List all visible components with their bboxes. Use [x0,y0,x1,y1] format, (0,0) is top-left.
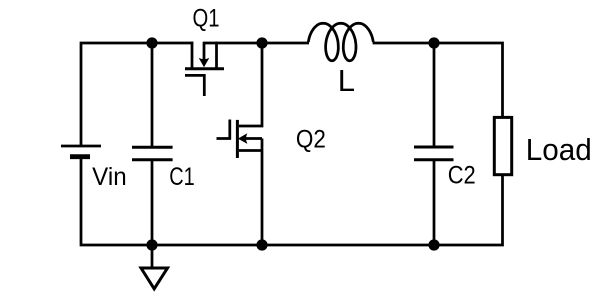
wire Q1 arrow shaft [203,42,206,61]
ground [141,268,168,289]
svg-text:Load: Load [526,132,592,167]
wire top-left rail and left branch down to battery [81,43,193,146]
svg-text:Q1: Q1 [193,5,220,33]
wire C1 branch top [151,43,154,147]
transistor Q2 [217,120,248,159]
wire Q1 source terminal drop [191,42,194,69]
wire Q2 body arrow shaft [246,137,262,140]
wire top rail right segment with corner to load [204,43,503,117]
svg-text:C1: C1 [169,163,195,191]
wire Q2 source to bottom rail [239,139,262,246]
inductor L [308,23,373,61]
node dot switch node [256,37,267,48]
wire Q1 drain terminal drop [215,42,218,69]
svg-text:Vin: Vin [92,163,127,191]
svg-text:L: L [338,63,355,98]
wire ground stub [151,245,154,268]
wire C2 branch bottom [433,160,436,245]
node dot bottom C1 [146,239,157,250]
node dot bottom Q2 [256,239,267,250]
node dot top C2 [428,37,439,48]
capacitor C1 [132,147,173,160]
transistor Q1 [185,58,224,96]
wire node-to-Q2 drain [239,43,262,126]
capacitor C2 [414,147,454,160]
resistor Load [494,117,511,174]
node dot bottom C2 [428,239,439,250]
node dot top C1 [146,37,157,48]
svg-text:Q2: Q2 [296,126,326,154]
svg-text:C2: C2 [448,161,476,189]
wire C2 branch top [433,43,436,147]
battery Vin [61,146,101,157]
wire bottom rail [81,157,503,245]
wire C1 branch bottom [151,160,154,245]
